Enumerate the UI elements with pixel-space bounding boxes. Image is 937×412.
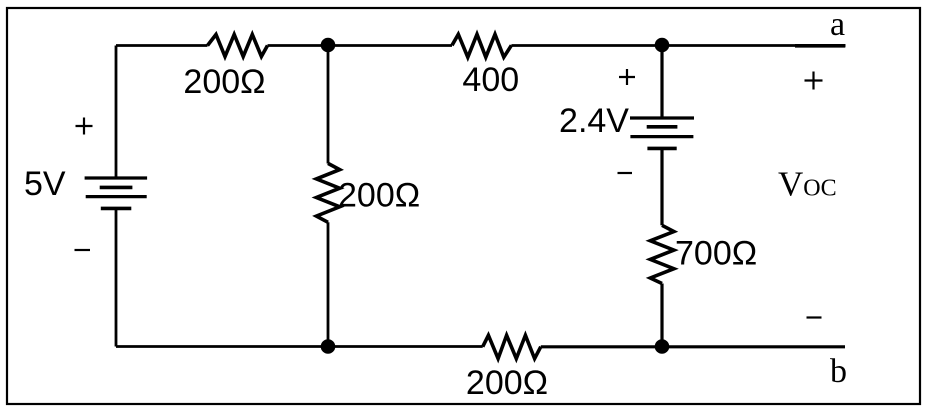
node junction top-middle [321, 38, 336, 53]
node junction bottom-middle [321, 339, 336, 354]
svg-text:5V: 5V [24, 165, 66, 203]
resistor R 200 ohm top [208, 35, 268, 57]
plus sign at 2.4V [619, 69, 635, 85]
plus sign at Voc [805, 72, 823, 90]
svg-text:200Ω: 200Ω [183, 63, 265, 101]
svg-text:200Ω: 200Ω [338, 177, 420, 215]
minus sign at 2.4V [618, 172, 633, 174]
svg-text:b: b [830, 353, 847, 390]
svg-text:400: 400 [462, 61, 519, 99]
wire bottom left [116, 345, 483, 348]
minus sign at Voc [807, 316, 822, 318]
wire middle branch upper [327, 46, 330, 164]
wire bottom to terminal b [541, 345, 845, 348]
battery 5V [85, 178, 148, 208]
wire battery negative lead [115, 208, 118, 346]
resistor R 200 ohm middle vertical [316, 163, 339, 222]
wire top between resistors [268, 44, 453, 47]
resistor R 200 ohm bottom [483, 335, 541, 358]
wire between battery and resistor 700 [660, 148, 663, 225]
node junction bottom-right [655, 339, 670, 354]
wire thick end at terminal a [795, 44, 845, 48]
svg-text:700Ω: 700Ω [675, 235, 757, 273]
wire top to terminal a [511, 44, 845, 47]
wire middle branch lower [327, 222, 330, 346]
plus sign at 5V [76, 118, 93, 135]
svg-text:a: a [830, 6, 845, 43]
wire right branch upper [660, 46, 663, 119]
resistor R 700 ohm [650, 225, 674, 283]
minus sign at 5V [75, 249, 91, 251]
svg-text:200Ω: 200Ω [466, 364, 548, 402]
wire below resistor 700 [660, 284, 663, 347]
resistor R 400 [452, 34, 511, 57]
wire battery positive lead [115, 46, 118, 179]
wire top from battery to resistor 200 [116, 44, 208, 47]
battery 2.4V [630, 118, 694, 148]
node junction top-right [655, 38, 670, 53]
svg-text:2.4V: 2.4V [559, 102, 629, 140]
